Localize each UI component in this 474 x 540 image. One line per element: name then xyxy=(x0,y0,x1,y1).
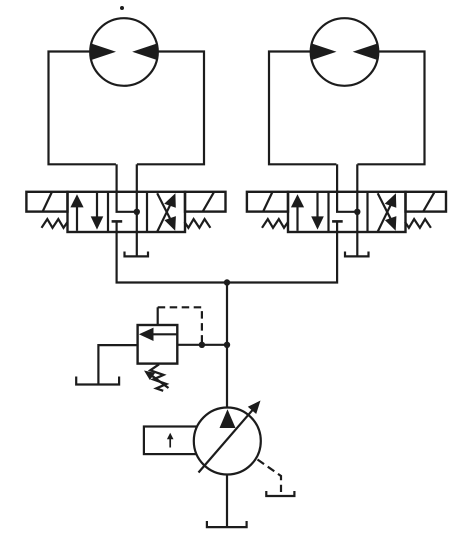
spring V1 left xyxy=(42,219,68,228)
V2 center junction dot xyxy=(354,209,360,215)
motor M2 triangle left xyxy=(311,43,337,60)
V1 right position cross arrow down xyxy=(157,193,170,218)
relief valve RV1 group xyxy=(76,307,230,391)
valve V1 group (left 4/3 solenoid valve) xyxy=(26,164,225,256)
V2 left position down arrow xyxy=(316,193,318,219)
motor M1 circle xyxy=(90,18,158,86)
node relief pilot dot xyxy=(199,342,205,348)
solenoid V2 left box xyxy=(247,192,288,212)
wire V1 T port line xyxy=(136,232,138,256)
relief RV1 adjust arrow xyxy=(150,374,169,388)
wire case drain dashed xyxy=(258,460,282,493)
tank relief drain xyxy=(76,377,119,385)
V2 right position cross arrow down xyxy=(378,193,391,218)
solenoid V1 right diagonal xyxy=(203,193,214,212)
node dot above motor M1 xyxy=(120,6,124,10)
motor M2 group xyxy=(269,18,425,164)
wire P manifold xyxy=(117,232,338,283)
V2 center blocked P bar xyxy=(332,220,343,223)
pump control box arrow xyxy=(169,437,171,448)
motor M1 group xyxy=(49,18,205,164)
solenoid V2 right box xyxy=(406,192,447,212)
wire motor M1 loop right xyxy=(137,52,204,165)
valve V1 divider 1 xyxy=(107,192,109,232)
wire V1 port B drop xyxy=(136,164,138,192)
wire motor M2 loop left xyxy=(269,52,336,165)
wire V1 port A drop xyxy=(115,164,117,192)
V1 right position cross arrow up xyxy=(157,205,170,231)
relief RV1 pilot dashed line xyxy=(158,307,202,345)
node relief output dot xyxy=(224,342,230,348)
wire motor M1 loop left xyxy=(49,52,116,165)
pump P1 flow triangle xyxy=(220,409,236,428)
solenoid V2 right diagonal xyxy=(423,193,434,212)
tank pump suction xyxy=(207,521,247,527)
wire V2 port B drop xyxy=(356,164,358,192)
pump P1 variable arrow head xyxy=(248,401,261,415)
tank V2 xyxy=(345,252,369,257)
V2 center blocked P stem xyxy=(336,221,338,232)
motor M1 triangle left xyxy=(91,43,117,60)
V1 left position up arrow xyxy=(76,204,78,231)
relief RV1 body xyxy=(138,325,178,364)
valve V2 divider 2 xyxy=(366,192,368,232)
tank case drain xyxy=(266,491,294,496)
pump P1 group xyxy=(144,401,295,528)
spring V2 right xyxy=(405,219,431,228)
wire main pressure line xyxy=(226,283,228,528)
wire V2 T port line xyxy=(356,232,358,256)
wire V2 port A drop xyxy=(336,164,338,192)
solenoid V1 right box xyxy=(185,192,226,212)
pump P1 circle xyxy=(194,408,261,475)
wire motor M2 loop right xyxy=(357,52,424,165)
valve V2 divider 1 xyxy=(327,192,329,232)
motor M2 circle xyxy=(311,18,379,86)
solenoid V1 left box xyxy=(26,192,67,212)
valve V1 body xyxy=(68,192,186,232)
V1 center junction dot xyxy=(134,209,140,215)
V1 center blocked P stem xyxy=(115,221,117,232)
node pump junction dot xyxy=(224,279,230,285)
pump compensator control box xyxy=(144,427,197,455)
motor M1 triangle right xyxy=(132,43,158,60)
V2 left position up arrow xyxy=(296,204,298,231)
tank V1 xyxy=(125,252,149,257)
V1 center B through line xyxy=(136,192,138,232)
V2 center elbow A to B xyxy=(337,192,354,212)
V2 center B through line xyxy=(356,192,358,232)
wire relief output line xyxy=(177,344,227,346)
valve V2 group (right 4/3 solenoid valve) xyxy=(247,164,446,256)
pump P1 variable arrow shaft xyxy=(199,408,255,472)
solenoid V1 left diagonal xyxy=(43,192,52,212)
relief RV1 pilot stub xyxy=(157,307,159,325)
motor M2 triangle right xyxy=(353,43,379,60)
valve V1 divider 2 xyxy=(146,192,148,232)
V1 center elbow A to B xyxy=(117,192,134,212)
V1 center blocked P bar xyxy=(112,220,123,223)
relief RV1 spring xyxy=(150,364,166,391)
spring V2 left xyxy=(262,219,288,228)
relief RV1 flow arrow xyxy=(151,333,177,335)
solenoid V2 left diagonal xyxy=(263,192,272,212)
wire relief drain line xyxy=(98,345,137,384)
valve V2 body xyxy=(288,192,406,232)
spring V1 right xyxy=(185,219,211,228)
V1 left position down arrow xyxy=(96,193,98,219)
V2 right position cross arrow up xyxy=(378,205,391,231)
